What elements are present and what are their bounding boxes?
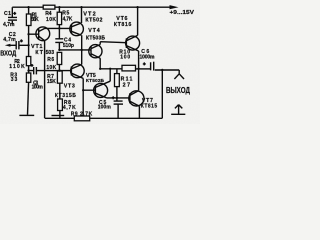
svg-text:503: 503 <box>46 50 55 56</box>
svg-text:100: 100 <box>120 54 130 60</box>
svg-text:КТ502Б: КТ502Б <box>86 78 105 84</box>
svg-text:4,7m: 4,7m <box>3 37 16 43</box>
svg-text:C1: C1 <box>4 11 11 17</box>
svg-text:33: 33 <box>11 77 18 83</box>
svg-text:R6: R6 <box>47 57 54 63</box>
svg-text:110K: 110K <box>9 64 25 70</box>
svg-text:15K: 15K <box>47 79 56 85</box>
svg-text:56K: 56K <box>31 17 39 23</box>
svg-text:VT6: VT6 <box>116 16 127 22</box>
svg-text:R5: R5 <box>62 10 69 16</box>
svg-text:4,7K: 4,7K <box>63 17 73 23</box>
svg-text:КТ: КТ <box>35 50 43 56</box>
svg-text:КТ315Б: КТ315Б <box>55 93 76 99</box>
svg-text:100m: 100m <box>98 105 112 111</box>
svg-text:4,7K: 4,7K <box>63 105 76 111</box>
svg-text:510p: 510p <box>63 43 74 49</box>
svg-text:КТ815: КТ815 <box>141 103 158 109</box>
svg-text:27: 27 <box>123 82 131 88</box>
svg-text:КТ503Б: КТ503Б <box>86 36 105 42</box>
svg-text:VT3: VT3 <box>64 84 75 90</box>
svg-text:КТ502: КТ502 <box>85 17 102 23</box>
svg-text:10K: 10K <box>46 65 56 71</box>
svg-text:100m: 100m <box>32 85 44 91</box>
svg-text:VT4: VT4 <box>88 28 100 34</box>
svg-text:4,7m: 4,7m <box>3 22 15 28</box>
svg-text:+9...15V: +9...15V <box>170 10 195 16</box>
svg-text:ВХОД: ВХОД <box>0 49 16 58</box>
svg-text:VT5: VT5 <box>86 73 96 79</box>
svg-text:10K: 10K <box>46 17 56 23</box>
svg-text:1000m: 1000m <box>140 54 156 60</box>
svg-text:КТ816: КТ816 <box>114 22 132 28</box>
svg-text:ВЫХОД: ВЫХОД <box>166 86 190 95</box>
